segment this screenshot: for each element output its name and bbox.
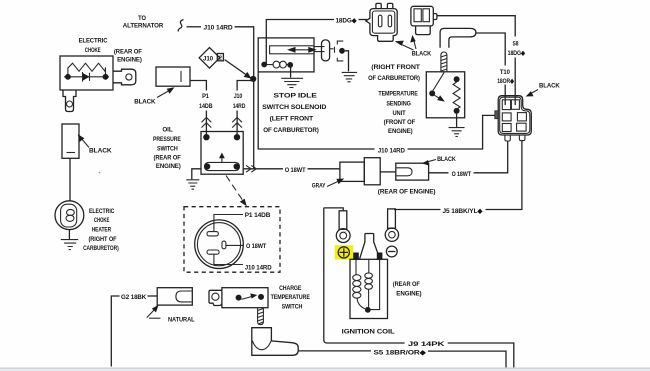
ground (choke heater) <box>61 240 78 250</box>
svg-text:(LEFT FRONT: (LEFT FRONT <box>270 115 313 122</box>
ground (right of stop idle solenoid) <box>342 72 357 81</box>
svg-text:S5 18BR/OR◆: S5 18BR/OR◆ <box>374 349 428 356</box>
svg-text:O 18WT: O 18WT <box>246 243 266 250</box>
inline connector chevrons (J10) <box>232 117 242 127</box>
wire gray to black connector <box>380 171 396 173</box>
sending unit resistor <box>454 76 460 82</box>
label STOP IDLE SWITCH SOLENOID <box>262 92 326 133</box>
arrow GRAY to connector <box>327 180 341 187</box>
ground (temperature sending unit) <box>449 128 465 137</box>
label (REAR OF ENGINE) coil <box>393 281 422 297</box>
label TO ALTERNATOR <box>123 15 164 30</box>
wire S5 18BR/OR from boot <box>298 351 506 369</box>
plunger travel arrows <box>291 49 313 51</box>
mating connector half (dashed) <box>335 41 344 61</box>
wire O 18WT from oil switch with connector chevrons <box>243 168 340 170</box>
round bulkhead connector face <box>195 220 244 269</box>
wire coil to ground <box>290 68 292 78</box>
chevrons (oil switch output) <box>246 165 256 172</box>
distributor cap elbow boot (top) <box>440 28 476 47</box>
svg-text:S8: S8 <box>513 40 519 47</box>
svg-text:IGNITION COIL: IGNITION COIL <box>342 328 395 335</box>
svg-text:T10: T10 <box>500 69 510 76</box>
electric choke heater <box>55 201 84 230</box>
svg-text:O 18WT: O 18WT <box>285 167 306 174</box>
svg-text:CARBURETOR): CARBURETOR) <box>83 245 119 252</box>
svg-text:CHOKE: CHOKE <box>94 217 110 224</box>
svg-text:ELECTRIC: ELECTRIC <box>79 37 108 44</box>
highlight on positive terminal <box>335 245 353 259</box>
choke right terminal tab <box>113 69 136 85</box>
wire sending unit to ground <box>456 114 458 127</box>
connector (black) on P1 wire <box>156 67 190 86</box>
svg-text:TEMPERATURE: TEMPERATURE <box>378 91 418 98</box>
coil primary winding <box>353 260 365 309</box>
svg-text:J10 14RD: J10 14RD <box>245 265 272 272</box>
carburetor plug connector (right front of carburetor) <box>366 3 397 41</box>
junction A (J10 splice dot) <box>250 76 256 82</box>
connector (black) on choke heater wire <box>62 124 79 158</box>
wire oil switch to ground <box>192 169 201 179</box>
svg-text:J9 14PK: J9 14PK <box>408 341 445 348</box>
ignition coil positive wire J9 14PK <box>324 208 514 368</box>
svg-text:SWITCH: SWITCH <box>282 303 303 310</box>
coil secondary winding <box>365 260 373 307</box>
svg-text:2: 2 <box>219 56 222 62</box>
arrow BLACK to plug connector <box>400 44 414 51</box>
ring terminal (coil positive) <box>336 211 350 243</box>
label ELECTRIC CHOKE HEATER <box>83 208 119 252</box>
wire connector to choke heater <box>69 158 71 201</box>
plunger tip capsule <box>322 40 330 61</box>
svg-text:BLACK: BLACK <box>412 51 432 58</box>
wire S8 18DG small connector to 6-way connector <box>437 16 515 105</box>
charge switch threaded stud <box>258 308 264 325</box>
wire G2 label to natural connector <box>148 295 158 297</box>
svg-text:14DB: 14DB <box>199 103 213 110</box>
svg-text:TEMPERATURE: TEMPERATURE <box>271 294 311 301</box>
sending unit switch arm <box>433 72 444 90</box>
svg-text:J10: J10 <box>234 93 243 100</box>
svg-text:ELECTRIC: ELECTRIC <box>89 208 115 215</box>
stop idle switch solenoid box <box>258 38 314 72</box>
solenoid plunger <box>270 46 314 54</box>
connector NATURAL <box>157 288 192 305</box>
arrow BLACK to connector <box>81 138 90 148</box>
label ELECTRIC CHOKE <box>79 37 142 63</box>
svg-text:(REAR OF: (REAR OF <box>114 48 142 55</box>
svg-text:OF CARBURETOR): OF CARBURETOR) <box>368 75 420 82</box>
pin callout O 18WT <box>226 244 244 246</box>
choke resistor element <box>68 63 106 74</box>
svg-text:SENDING: SENDING <box>386 101 411 108</box>
svg-text:ENGINE): ENGINE) <box>156 163 181 170</box>
ring terminal (coil negative) <box>385 209 398 242</box>
charge temperature switch connector tab <box>209 290 222 305</box>
connector GRAY <box>340 158 380 185</box>
ignition coil body <box>350 259 388 318</box>
carburetor idle-stop connector (small, black) <box>411 6 437 34</box>
temperature sending unit stud <box>441 52 447 72</box>
label TEMPERATURE SENDING UNIT <box>378 91 418 136</box>
oil pressure switch box <box>201 132 243 175</box>
svg-text:CHOKE: CHOKE <box>85 47 101 54</box>
svg-text:BLACK: BLACK <box>89 147 112 154</box>
oil switch contact capsule <box>205 162 240 170</box>
svg-text:(REAR OF: (REAR OF <box>154 154 181 161</box>
arrow BLACK to rear connector <box>426 160 437 163</box>
svg-text:18DG◆: 18DG◆ <box>336 18 358 25</box>
solenoid coil <box>261 61 293 68</box>
choke diode <box>83 72 90 82</box>
svg-text:18DG◆: 18DG◆ <box>508 50 526 57</box>
arrow BLACK to P1 connector <box>157 90 171 98</box>
wire break squiggle to alternator <box>178 20 183 32</box>
svg-text:OIL: OIL <box>162 127 172 134</box>
wire 18DG label to plug <box>359 19 368 21</box>
svg-text:SWITCH SOLENOID: SWITCH SOLENOID <box>262 104 326 111</box>
svg-text:UNIT: UNIT <box>392 110 405 117</box>
temperature sending unit box <box>426 72 464 118</box>
window bottom edge line <box>0 367 650 369</box>
wire G2 18BK <box>111 296 119 367</box>
coil positive symbol <box>338 247 349 258</box>
charge switch contact arrow <box>242 296 254 299</box>
pin callout P1 14DB <box>214 215 243 232</box>
svg-text:BLACK: BLACK <box>134 99 156 106</box>
coil common junction dot <box>365 307 371 313</box>
svg-text:CHARGE: CHARGE <box>279 285 302 292</box>
svg-text:18OR◆: 18OR◆ <box>497 78 514 85</box>
connector BLACK (rear of engine) <box>396 163 429 180</box>
svg-text:ENGINE): ENGINE) <box>396 290 421 297</box>
svg-text:ALTERNATOR: ALTERNATOR <box>123 23 164 30</box>
wire from terminal to ground <box>345 51 349 72</box>
svg-text:BLACK: BLACK <box>539 83 560 90</box>
svg-text:NATURAL: NATURAL <box>168 317 195 324</box>
label (RIGHT FRONT OF CARBURETOR) <box>368 64 420 82</box>
svg-text:14RD: 14RD <box>233 103 246 110</box>
charge temperature switch body <box>222 288 268 308</box>
svg-text:P1: P1 <box>202 93 209 100</box>
svg-text:(REAR OF ENGINE): (REAR OF ENGINE) <box>378 189 436 196</box>
wire O 18WT to bulkhead 6-way connector <box>429 141 508 173</box>
inline connector chevrons (P1) <box>202 117 212 127</box>
wire J10 14RD from solenoid bracket to 6-way connector <box>258 72 495 149</box>
svg-text:J5 18BK/YL◆: J5 18BK/YL◆ <box>443 208 484 215</box>
ground (oil pressure switch) <box>186 180 199 189</box>
pin callout J10 14RD <box>214 254 243 264</box>
svg-text:J10 14RD: J10 14RD <box>378 147 405 154</box>
svg-text:OF CARBURETOR): OF CARBURETOR) <box>263 127 319 134</box>
wire P1 connector to oil pressure switch <box>190 81 206 135</box>
scan speck <box>345 231 346 232</box>
svg-text:(REAR OF: (REAR OF <box>393 281 420 288</box>
svg-text:HEATER: HEATER <box>92 226 112 233</box>
coil primary terminals <box>353 253 359 261</box>
svg-text:P1 14DB: P1 14DB <box>245 212 271 219</box>
svg-text:ENGINE): ENGINE) <box>117 56 142 63</box>
ignition coil tower <box>360 234 381 260</box>
coil negative symbol <box>386 246 397 257</box>
oil switch terminal dots <box>203 134 209 140</box>
svg-text:BLACK: BLACK <box>437 156 456 163</box>
svg-text:STOP IDLE: STOP IDLE <box>273 92 317 99</box>
svg-text:SWITCH: SWITCH <box>157 145 178 152</box>
svg-text:O 18WT: O 18WT <box>452 171 471 178</box>
wire 18DG from stop idle solenoid to carburetor connector <box>266 20 334 65</box>
label CHARGE TEMPERATURE SWITCH <box>271 285 311 311</box>
coil negative internal wire <box>371 260 380 310</box>
arrow NATURAL to connector <box>147 309 156 318</box>
window bottom band <box>0 369 650 371</box>
svg-text:ENGINE): ENGINE) <box>388 128 413 135</box>
connector symbol J10 2 (diamond) <box>199 48 223 69</box>
wire T10 18OR elbow to 6-way connector <box>476 33 505 105</box>
svg-text:(FRONT OF: (FRONT OF <box>384 119 416 126</box>
svg-text:(RIGHT FRONT: (RIGHT FRONT <box>371 64 420 71</box>
choke mid wire with terminals <box>64 76 109 78</box>
electric choke assembly box <box>60 56 113 90</box>
wire from squiggle to J10 14RD label <box>187 26 202 28</box>
svg-text:J10 14RD: J10 14RD <box>204 24 233 31</box>
dashed arrow to bulkhead connector detail <box>226 176 245 204</box>
ground (below solenoid coil) <box>281 78 303 87</box>
svg-text:PRESSURE: PRESSURE <box>153 136 181 143</box>
wire J10 14RD to junction A <box>235 27 254 169</box>
bulkhead 6-way connector (black) <box>495 96 532 141</box>
svg-text:J10: J10 <box>203 56 214 63</box>
wire J5 18BK/YL from bulkhead to ignition coil negative <box>394 141 522 210</box>
arrow from J10 2 to junction A <box>225 60 248 76</box>
bulkhead connector detail (dashed box) <box>184 207 280 273</box>
svg-text:TO: TO <box>138 15 146 22</box>
terminal dot on mating connector <box>339 48 345 54</box>
svg-text:(RIGHT OF: (RIGHT OF <box>89 236 117 243</box>
arrow BLACK to small connector <box>413 39 416 50</box>
svg-text:G2 18BK: G2 18BK <box>121 294 147 301</box>
arrow BLACK to bulkhead connector <box>529 90 538 95</box>
oil switch actuation arrow <box>221 156 223 162</box>
choke bottom mounting tab <box>63 90 76 112</box>
scan speck <box>99 172 101 174</box>
svg-text:GRAY: GRAY <box>312 183 326 190</box>
wire junction A to J10 chevrons into oil pressure switch <box>237 81 254 135</box>
label OIL PRESSURE SWITCH <box>153 127 181 170</box>
spark plug elbow boot (bottom) <box>252 328 298 356</box>
wire heater to ground <box>68 230 70 239</box>
